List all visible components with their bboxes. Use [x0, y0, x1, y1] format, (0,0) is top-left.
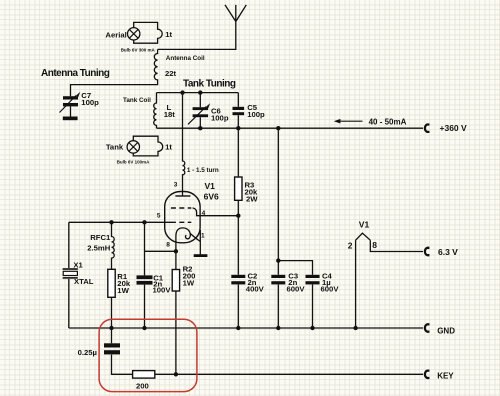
svg-text:Tank Coil: Tank Coil: [123, 97, 151, 104]
svg-text:1W: 1W: [117, 286, 129, 295]
svg-text:X1: X1: [73, 260, 83, 269]
svg-text:22t: 22t: [165, 69, 177, 78]
svg-text:Antenna Coil: Antenna Coil: [166, 55, 205, 62]
svg-text:400V: 400V: [246, 285, 265, 294]
svg-text:2: 2: [348, 240, 353, 250]
svg-text:1t: 1t: [165, 30, 172, 39]
svg-text:KEY: KEY: [437, 372, 454, 381]
svg-text:RFC1: RFC1: [90, 233, 111, 242]
svg-text:4: 4: [202, 210, 206, 217]
svg-text:Tank Tuning: Tank Tuning: [183, 79, 236, 90]
svg-text:V1: V1: [205, 181, 216, 191]
svg-text:Aerial: Aerial: [105, 30, 126, 39]
svg-text:600V: 600V: [321, 285, 340, 294]
svg-text:40 - 50mA: 40 - 50mA: [369, 117, 407, 126]
svg-text:6.3 V: 6.3 V: [438, 247, 458, 257]
svg-text:100V: 100V: [153, 286, 172, 295]
svg-text:100p: 100p: [211, 114, 229, 123]
svg-text:1W: 1W: [183, 279, 195, 288]
svg-text:2.5mH: 2.5mH: [87, 243, 111, 252]
svg-text:3: 3: [174, 182, 178, 189]
svg-text:18t: 18t: [164, 110, 176, 119]
svg-text:2W: 2W: [246, 194, 258, 203]
svg-text:1t: 1t: [165, 142, 172, 151]
svg-text:100p: 100p: [81, 98, 99, 107]
svg-text:0.25µ: 0.25µ: [78, 348, 97, 357]
svg-text:8: 8: [372, 240, 377, 250]
svg-text:100p: 100p: [247, 110, 265, 119]
svg-text:Bulb 6V 300 mA: Bulb 6V 300 mA: [121, 47, 156, 52]
svg-text:5: 5: [157, 212, 161, 219]
svg-text:Antenna Tuning: Antenna Tuning: [41, 68, 110, 79]
svg-text:200: 200: [136, 381, 149, 390]
svg-text:Tank: Tank: [106, 142, 124, 151]
svg-text:GND: GND: [437, 326, 455, 335]
svg-text:XTAL: XTAL: [74, 277, 94, 286]
svg-text:600V: 600V: [287, 285, 306, 294]
svg-text:V1: V1: [359, 219, 370, 229]
svg-text:1 - 1.5 turn: 1 - 1.5 turn: [187, 167, 219, 174]
svg-text:1: 1: [201, 233, 205, 240]
svg-text:8: 8: [166, 241, 170, 248]
svg-text:+360 V: +360 V: [440, 123, 468, 133]
svg-text:6V6: 6V6: [204, 192, 219, 202]
svg-text:Bulb 6V 100mA: Bulb 6V 100mA: [117, 160, 151, 165]
